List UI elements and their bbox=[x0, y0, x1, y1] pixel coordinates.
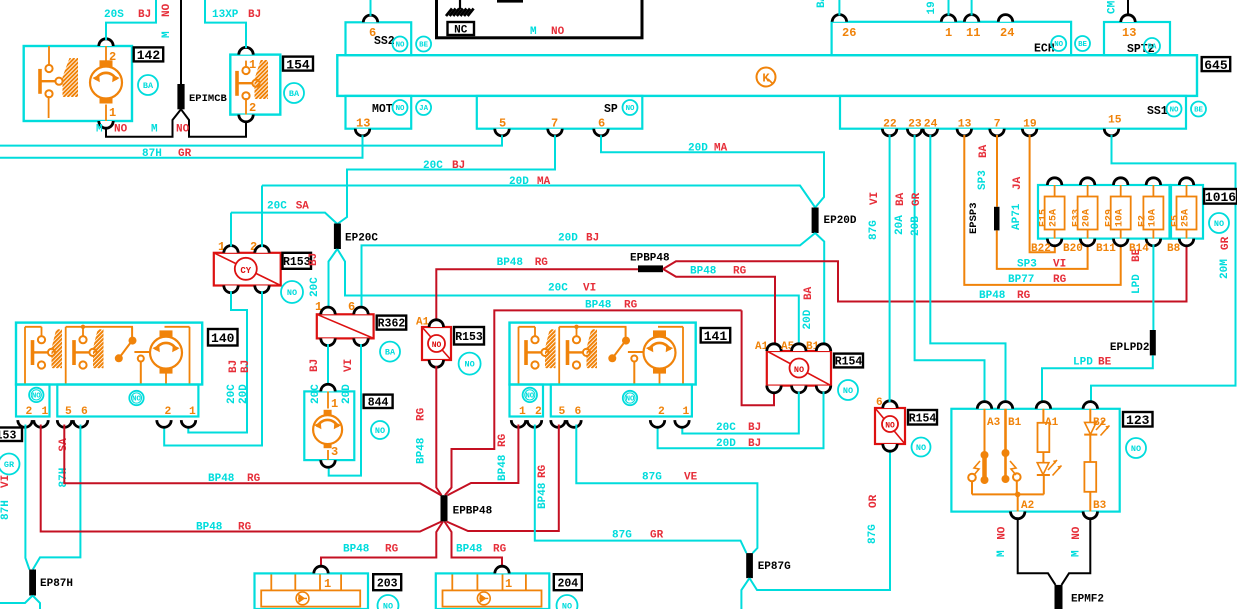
svg-text:7: 7 bbox=[551, 117, 558, 131]
svg-text:BA: BA bbox=[1148, 44, 1157, 52]
svg-text:NO: NO bbox=[464, 360, 474, 370]
wire EP87G bottom-right to R154 small (87G OR) bbox=[750, 450, 891, 590]
svg-text:RG: RG bbox=[537, 464, 549, 478]
svg-text:VE: VE bbox=[684, 472, 698, 484]
circle label 140 NO right bbox=[129, 391, 143, 405]
fuse box 1016 bbox=[1038, 185, 1170, 239]
svg-text:CM: CM bbox=[1107, 0, 1119, 14]
svg-text:BA: BA bbox=[895, 192, 907, 206]
circle label SS2 NO bbox=[393, 37, 408, 52]
component box 140 : main rectangle bbox=[16, 323, 202, 385]
fuse F29 10A bbox=[1120, 185, 1122, 197]
svg-text:R154: R154 bbox=[909, 412, 937, 425]
wire 20S BJ into box142 pin2 bbox=[106, 0, 156, 40]
svg-text:BP48: BP48 bbox=[537, 482, 549, 509]
svg-text:11: 11 bbox=[966, 26, 980, 40]
wire R153 bottom-right to box140 pin2 (20D BJ) bbox=[164, 291, 262, 445]
motor M inside box 142 bbox=[90, 67, 122, 99]
svg-text:EPSP3: EPSP3 bbox=[968, 202, 980, 234]
svg-text:142: 142 bbox=[137, 48, 161, 63]
component box 141 : connector sub-boxes bbox=[510, 385, 544, 417]
svg-text:EPMF2: EPMF2 bbox=[1071, 594, 1104, 606]
svg-text:5: 5 bbox=[65, 406, 72, 418]
circle label NO near 203 bbox=[378, 595, 399, 609]
label box 203 bbox=[373, 574, 401, 590]
circle label BA near 154 bbox=[284, 83, 304, 103]
svg-text:BP48: BP48 bbox=[585, 300, 612, 312]
connector EPMF2 bbox=[1055, 585, 1063, 609]
connector EPLPD2 bbox=[1150, 330, 1156, 355]
wire R153 pin1 wire down bbox=[230, 213, 232, 247]
svg-text:BP48: BP48 bbox=[979, 290, 1006, 302]
svg-text:NO: NO bbox=[161, 3, 173, 17]
pin A1 of 123 bbox=[1036, 402, 1050, 409]
wire EPBP48 to box141 pin5 (BP48 RG) bbox=[447, 425, 559, 532]
svg-text:87G: 87G bbox=[867, 524, 879, 544]
wire K pin24 to box123 B1 (20B GR) bbox=[930, 135, 1005, 403]
wire wire above ECH pin 11 bbox=[971, 0, 973, 16]
svg-text:BE: BE bbox=[1194, 107, 1203, 115]
svg-text:20D: 20D bbox=[716, 438, 736, 450]
svg-text:RG: RG bbox=[624, 300, 638, 312]
svg-text:2: 2 bbox=[249, 101, 256, 115]
svg-text:BP48: BP48 bbox=[196, 522, 223, 534]
svg-text:10A: 10A bbox=[1115, 209, 1126, 227]
svg-text:RG: RG bbox=[535, 257, 549, 269]
wire 13XP BJ into box154 pin1 bbox=[205, 0, 246, 48]
svg-text:20C: 20C bbox=[267, 201, 287, 213]
svg-text:20A: 20A bbox=[894, 215, 906, 235]
bottom pins of R153 bbox=[224, 286, 238, 293]
svg-text:25A: 25A bbox=[1181, 209, 1192, 227]
svg-text:VI: VI bbox=[343, 359, 355, 372]
svg-text:M: M bbox=[151, 124, 158, 136]
svg-text:RG: RG bbox=[247, 473, 261, 485]
svg-text:13XP: 13XP bbox=[212, 9, 239, 21]
circle label 140 NO left bbox=[29, 388, 43, 402]
svg-text:B11: B11 bbox=[1096, 243, 1116, 255]
svg-text:BJ: BJ bbox=[240, 360, 252, 373]
svg-text:2: 2 bbox=[109, 50, 116, 64]
relay symbol K bbox=[757, 68, 776, 87]
wire EPIMCB to box142 pin1 bbox=[106, 109, 181, 136]
circle label MOT JA bbox=[416, 100, 431, 115]
svg-text:1: 1 bbox=[324, 577, 331, 591]
svg-text:BP77: BP77 bbox=[1008, 274, 1034, 286]
svg-text:87H: 87H bbox=[142, 148, 162, 160]
svg-text:20C: 20C bbox=[310, 384, 322, 404]
diode box 203 bbox=[255, 573, 369, 609]
circle label NO near 844 bbox=[371, 421, 389, 439]
svg-text:EPBP48: EPBP48 bbox=[453, 506, 493, 518]
svg-text:BJ: BJ bbox=[586, 233, 599, 245]
diode box 204 bbox=[436, 573, 550, 609]
label box 140 bbox=[208, 329, 238, 346]
svg-text:BA: BA bbox=[289, 89, 300, 99]
svg-text:RG: RG bbox=[416, 407, 428, 421]
svg-text:K: K bbox=[762, 72, 770, 86]
motor box 844 bbox=[304, 391, 354, 460]
svg-text:15: 15 bbox=[1108, 115, 1122, 127]
ECH connector box on top of K box bbox=[832, 22, 1072, 55]
wire supply into EPIMCB bbox=[180, 0, 182, 84]
circle label NO near R153 b bbox=[459, 353, 481, 375]
wire 20D MA bus to EP20D bbox=[262, 186, 815, 208]
fuse F15 25A bbox=[1054, 185, 1056, 197]
svg-text:204: 204 bbox=[557, 577, 578, 590]
svg-text:2: 2 bbox=[26, 406, 33, 418]
svg-text:BA: BA bbox=[385, 348, 396, 358]
circle label 141 NO left bbox=[523, 388, 537, 402]
connector EPIMCB bbox=[177, 84, 184, 109]
wire EP87H bottom-right out bbox=[33, 596, 40, 609]
svg-text:BA: BA bbox=[143, 81, 154, 91]
bottom pin of small R154 bbox=[883, 444, 897, 451]
svg-text:BE: BE bbox=[1131, 248, 1143, 262]
svg-text:R153: R153 bbox=[283, 256, 311, 269]
svg-text:MA: MA bbox=[714, 143, 728, 155]
svg-text:BE: BE bbox=[1078, 41, 1087, 49]
wire box140 pin1 to EPBP48 (BP48 RG) bbox=[41, 425, 442, 532]
wire 20C BJ from SP pin7 to EP20C bbox=[337, 135, 555, 224]
circle label NO near small R154 bbox=[912, 438, 931, 457]
wire BP48 RG from EPBP48h to R153-A1 bbox=[436, 269, 638, 321]
svg-text:2: 2 bbox=[165, 406, 172, 418]
svg-text:SP: SP bbox=[604, 103, 618, 116]
svg-text:BE: BE bbox=[419, 42, 428, 50]
svg-text:20D: 20D bbox=[558, 233, 578, 245]
svg-text:B20: B20 bbox=[1063, 243, 1083, 255]
component box 140 : connector sub-boxes bbox=[16, 385, 50, 417]
svg-text:NO: NO bbox=[176, 124, 190, 136]
wire EP87G bottom-left out bbox=[741, 578, 749, 609]
circle label NO near R154 bbox=[838, 380, 858, 400]
wire BP48 RG down to R154 A1 bottom bbox=[742, 310, 774, 405]
wire K pin15 right edge to box123 B2 (20M GR) bbox=[1091, 135, 1236, 403]
svg-text:20D: 20D bbox=[341, 384, 353, 404]
svg-text:NO: NO bbox=[396, 42, 405, 50]
label box 645 bbox=[1202, 57, 1231, 71]
connector EP20D bbox=[812, 208, 819, 234]
relay R153 (CY) bbox=[214, 253, 281, 286]
svg-text:20C: 20C bbox=[716, 422, 736, 434]
MOT connector box below K box bbox=[346, 96, 412, 129]
circle label MOT NO bbox=[393, 100, 408, 115]
relay R154 bbox=[767, 351, 831, 386]
SS2 connector box on top of K box bbox=[346, 22, 412, 55]
svg-text:20A: 20A bbox=[1082, 209, 1093, 227]
svg-text:EP87H: EP87H bbox=[40, 578, 73, 590]
connector EP87G bbox=[746, 553, 753, 578]
circle label SPT2 BA bbox=[1144, 38, 1160, 54]
wire K pin22 down to small R154 (87G VI) bbox=[889, 135, 891, 402]
wire EPSP3 to fuse B20 (SP3 VI) bbox=[997, 230, 1088, 269]
wire 20C SA into EP20C bbox=[231, 213, 337, 224]
svg-text:NC: NC bbox=[454, 24, 468, 36]
svg-text:NO: NO bbox=[383, 602, 393, 609]
svg-text:JA: JA bbox=[1012, 176, 1024, 190]
svg-text:20D: 20D bbox=[688, 143, 708, 155]
wire box141 pin6 to EP87G (87G VE) bbox=[576, 425, 757, 554]
svg-text:20C: 20C bbox=[226, 384, 238, 404]
wire EPBP48h upper-right to fuse B8 (BP48 RG) bbox=[663, 245, 1187, 302]
connector EPBP48 vertical bbox=[441, 495, 448, 521]
ground symbol inside black box bbox=[459, 0, 461, 9]
pin A2 of 123 bbox=[1011, 512, 1025, 519]
svg-text:1: 1 bbox=[249, 58, 256, 72]
wire EPBP48h lower-right to R154 A1 top bbox=[663, 269, 775, 345]
wire box123 A2 to EPMF2 bbox=[1018, 518, 1056, 585]
svg-text:NO: NO bbox=[843, 386, 853, 396]
svg-text:20B: 20B bbox=[910, 216, 922, 236]
svg-text:153: 153 bbox=[0, 429, 16, 442]
wire box141 pin2 to EP87G (87G GR) bbox=[535, 425, 747, 554]
svg-text:6: 6 bbox=[575, 406, 582, 418]
svg-text:BP48: BP48 bbox=[497, 454, 509, 481]
label box R153 bbox=[283, 253, 312, 269]
wire EP20C to 20C VI wire bbox=[337, 249, 799, 345]
svg-text:20D: 20D bbox=[238, 384, 250, 404]
svg-text:20S: 20S bbox=[104, 9, 124, 21]
component box 154 bbox=[230, 55, 280, 115]
wire R153 bottom-left to box140 pin1 (20C BJ) bbox=[188, 291, 247, 432]
wire K pin23 to box123 A3 (20A BA) bbox=[915, 135, 985, 403]
svg-text:NO: NO bbox=[626, 105, 635, 113]
svg-text:GR: GR bbox=[650, 530, 664, 542]
svg-text:VI: VI bbox=[1053, 259, 1066, 271]
svg-text:A3: A3 bbox=[987, 417, 1001, 429]
svg-text:SS1: SS1 bbox=[1147, 105, 1168, 118]
wire box140 pin2 down to EP87H bbox=[25, 425, 29, 570]
component box 141 : main rectangle bbox=[510, 323, 696, 385]
svg-text:MOT: MOT bbox=[372, 103, 393, 116]
wire wire above ECH pin 1 bbox=[948, 0, 950, 16]
svg-text:1016: 1016 bbox=[1205, 190, 1236, 205]
svg-text:SP3: SP3 bbox=[977, 170, 989, 190]
svg-text:M: M bbox=[996, 550, 1008, 557]
svg-text:6: 6 bbox=[598, 117, 605, 131]
component box 123 bbox=[951, 409, 1119, 512]
bottom pins of R362 bbox=[321, 338, 335, 345]
component box 142 bbox=[24, 46, 132, 121]
label box 141 bbox=[701, 328, 731, 343]
svg-text:26: 26 bbox=[842, 26, 856, 40]
svg-text:RG: RG bbox=[497, 433, 509, 447]
svg-text:645: 645 bbox=[1204, 58, 1228, 73]
svg-text:RG: RG bbox=[1053, 274, 1067, 286]
svg-text:R154: R154 bbox=[835, 356, 863, 369]
switch contacts A3 inside 123 bbox=[968, 409, 984, 495]
svg-text:BP48: BP48 bbox=[208, 473, 235, 485]
circle label NO near 204 bbox=[557, 595, 578, 609]
svg-text:BJ: BJ bbox=[248, 9, 261, 21]
svg-text:1: 1 bbox=[683, 406, 690, 418]
circle label SS1 NO bbox=[1167, 102, 1182, 117]
circle label SS2 BE bbox=[416, 37, 431, 52]
svg-text:NO: NO bbox=[1170, 107, 1179, 115]
wire black wire above SPT2 pin 13 bbox=[1127, 0, 1129, 16]
svg-text:1: 1 bbox=[189, 406, 196, 418]
svg-text:NO: NO bbox=[432, 341, 442, 350]
label box R153 b bbox=[454, 327, 484, 345]
wire EPBP48 down-left to box 203 pin1 bbox=[321, 522, 443, 574]
svg-text:6: 6 bbox=[81, 406, 88, 418]
svg-text:24: 24 bbox=[1000, 26, 1014, 40]
svg-text:20C: 20C bbox=[423, 160, 443, 172]
svg-text:GR: GR bbox=[1220, 236, 1232, 250]
wire EP20C to R362 pin1 (20C BJ) bbox=[329, 249, 338, 308]
svg-text:5: 5 bbox=[499, 117, 506, 131]
svg-text:LPD: LPD bbox=[1131, 274, 1143, 294]
circle label BE between ECH and SPT2 bbox=[1075, 36, 1090, 51]
circle label NO near 1016 bbox=[1209, 213, 1229, 233]
svg-text:1: 1 bbox=[945, 26, 952, 40]
wire K pin13 to fuse B11 (BP77 RG) bbox=[964, 135, 1120, 285]
component box 140 : internal relay/motor symbols bbox=[25, 327, 190, 385]
wire R153-A1 down to EPBP48 bbox=[436, 366, 441, 495]
svg-text:VI: VI bbox=[869, 192, 881, 205]
svg-text:87G: 87G bbox=[642, 472, 662, 484]
svg-text:R362: R362 bbox=[378, 318, 406, 331]
label box R362 bbox=[377, 316, 407, 330]
svg-text:NO: NO bbox=[885, 422, 895, 431]
svg-text:MA: MA bbox=[537, 176, 551, 188]
svg-text:BA: BA bbox=[816, 0, 828, 8]
svg-text:20C: 20C bbox=[309, 277, 321, 297]
wire K pin19 to fuse B22 (AP71 JA) bbox=[1030, 135, 1055, 252]
svg-text:NO: NO bbox=[1131, 444, 1141, 454]
wire 87H GR bus lower bbox=[0, 135, 363, 158]
bottom pin of R153 NO bbox=[429, 360, 443, 367]
svg-text:NO: NO bbox=[525, 393, 534, 401]
svg-text:EPIMCB: EPIMCB bbox=[189, 93, 228, 105]
svg-text:140: 140 bbox=[211, 331, 235, 346]
wire K pin7 into EPSP3 bbox=[996, 135, 998, 207]
svg-text:NO: NO bbox=[1054, 41, 1063, 49]
svg-text:RG: RG bbox=[238, 522, 252, 534]
connector EP87H bbox=[29, 570, 36, 596]
circle label 141 NO right bbox=[623, 391, 637, 405]
fuse F33 20A bbox=[1087, 185, 1089, 197]
svg-text:19: 19 bbox=[926, 1, 938, 14]
svg-text:1: 1 bbox=[519, 406, 526, 418]
wire R362 bottom-left to box 844 pin 1 bbox=[327, 344, 329, 385]
label box 844 bbox=[364, 395, 393, 408]
wire 20D MA from SP pin6 to EP20D bbox=[601, 135, 824, 207]
label box 142 bbox=[134, 47, 164, 61]
svg-text:BJ: BJ bbox=[748, 438, 761, 450]
connector EPBP48 horizontal bbox=[638, 265, 663, 272]
svg-text:NO: NO bbox=[1071, 526, 1083, 540]
label box 123 bbox=[1123, 412, 1153, 427]
svg-text:BA: BA bbox=[978, 144, 990, 158]
svg-text:M: M bbox=[96, 124, 103, 136]
svg-text:M: M bbox=[530, 26, 537, 38]
label box 153 (clipped R153) bbox=[0, 428, 22, 442]
svg-text:BP48: BP48 bbox=[343, 544, 370, 556]
svg-text:1: 1 bbox=[331, 397, 338, 411]
svg-text:EP20D: EP20D bbox=[824, 215, 857, 227]
svg-text:RG: RG bbox=[1017, 290, 1031, 302]
svg-text:VI: VI bbox=[0, 475, 12, 488]
switch contacts B1 inside 123 bbox=[1006, 409, 1021, 481]
connector EP20C bbox=[334, 224, 341, 250]
wire R154 A5 bottom to box141 pin1 (20C BJ) bbox=[682, 392, 799, 434]
svg-text:BJ: BJ bbox=[452, 160, 465, 172]
svg-text:NO: NO bbox=[551, 26, 565, 38]
svg-text:B8: B8 bbox=[1167, 243, 1181, 255]
main ECU box (K) bbox=[337, 55, 1197, 96]
circle label NO near 123 bbox=[1126, 438, 1146, 458]
svg-text:VI: VI bbox=[583, 283, 596, 295]
wire BP48 RG mid horizontal bbox=[445, 310, 742, 495]
svg-text:BJ: BJ bbox=[748, 422, 761, 434]
fuse F5 25A bbox=[1186, 185, 1188, 197]
svg-text:2: 2 bbox=[658, 406, 665, 418]
wire EP87H bottom-left out bbox=[0, 596, 33, 604]
svg-text:123: 123 bbox=[1126, 413, 1150, 428]
SPT2 connector box on top of K box bbox=[1104, 22, 1170, 55]
svg-text:LPD: LPD bbox=[1073, 357, 1093, 369]
svg-text:87G: 87G bbox=[612, 530, 632, 542]
pin B2 of 123 bbox=[1083, 402, 1097, 409]
label box 154 bbox=[283, 57, 313, 71]
wire R154 B1 bottom to box141 pin2 (20D BJ) bbox=[658, 392, 824, 449]
svg-text:NO: NO bbox=[114, 124, 128, 136]
wire box141 pin1 to EPBP48 (BP48 RG) bbox=[448, 425, 519, 496]
relay R154 (small) bbox=[875, 408, 905, 444]
svg-text:NO: NO bbox=[132, 396, 141, 404]
svg-text:EP87G: EP87G bbox=[758, 561, 791, 573]
fuse F2 10A bbox=[1152, 185, 1154, 197]
circle label SS1 BE bbox=[1191, 102, 1206, 117]
svg-text:NO: NO bbox=[626, 396, 635, 404]
svg-text:13: 13 bbox=[1122, 26, 1136, 40]
svg-text:GR: GR bbox=[911, 192, 923, 206]
svg-text:10A: 10A bbox=[1147, 209, 1158, 227]
bottom pins of R154 bbox=[767, 386, 781, 393]
svg-text:BA: BA bbox=[803, 286, 815, 300]
svg-text:AP71: AP71 bbox=[1011, 203, 1023, 230]
svg-text:SP3: SP3 bbox=[1017, 259, 1037, 271]
wire EPLPD2 to box123 A1 (LPD BE) bbox=[1042, 355, 1153, 403]
svg-text:R153: R153 bbox=[455, 331, 483, 344]
svg-text:A1: A1 bbox=[416, 317, 430, 329]
wire R153 pin2 wire down bbox=[261, 186, 263, 248]
label box NC bbox=[448, 22, 475, 35]
label box R154 small bbox=[908, 410, 937, 425]
svg-text:2: 2 bbox=[535, 406, 542, 418]
black box (top, clipped) with NC contact bbox=[437, 0, 643, 38]
pin B1 of 123 bbox=[998, 402, 1012, 409]
svg-text:JA: JA bbox=[419, 105, 428, 113]
svg-text:141: 141 bbox=[704, 329, 728, 344]
svg-text:OR: OR bbox=[868, 494, 880, 508]
svg-text:EP20C: EP20C bbox=[345, 233, 378, 245]
svg-text:BE: BE bbox=[1098, 357, 1112, 369]
svg-text:CY: CY bbox=[240, 266, 251, 276]
wire wire above SS2 pin 6 bbox=[370, 0, 372, 16]
svg-text:1: 1 bbox=[505, 577, 512, 591]
clipped element at top bbox=[497, 0, 523, 3]
svg-text:NO: NO bbox=[287, 288, 297, 298]
component box 141 : internal relay/motor symbols bbox=[519, 327, 684, 385]
svg-text:13: 13 bbox=[356, 117, 370, 131]
svg-text:3: 3 bbox=[331, 445, 338, 459]
svg-text:87H: 87H bbox=[0, 500, 12, 520]
svg-text:BJ: BJ bbox=[309, 359, 321, 372]
circle label ECH NO bbox=[1051, 36, 1066, 51]
